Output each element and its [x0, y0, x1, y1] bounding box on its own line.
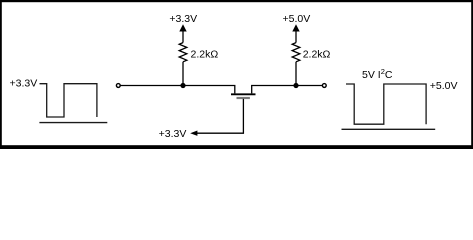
wire: gate to +3.3V reference	[197, 99, 244, 133]
MOSFET Q1 gate electrode bar	[237, 97, 250, 99]
svg-text:2.2kΩ: 2.2kΩ	[191, 48, 219, 60]
resistor R2 zigzag body	[292, 43, 300, 62]
svg-text:+3.3V: +3.3V	[159, 128, 187, 140]
svg-text:5V I2C: 5V I2C	[362, 67, 393, 81]
waveform: 5V logic signal	[346, 84, 426, 124]
wire: left terminal to MOSFET drain	[120, 86, 234, 94]
resistor R2 lead top	[295, 30, 297, 43]
svg-text:2.2kΩ: 2.2kΩ	[303, 48, 331, 60]
wire: MOSFET source to right terminal	[252, 86, 323, 94]
resistor R2 2.2k pull-up lead bottom	[295, 62, 297, 86]
supply arrow +3.3V (left pull-up)	[179, 24, 186, 31]
terminal: 5V-side open circle	[322, 84, 326, 88]
frame border	[0, 0, 473, 149]
arrow to +3.3V gate reference	[190, 131, 197, 136]
resistor R1 lead top	[182, 30, 184, 43]
svg-text:+3.3V: +3.3V	[10, 78, 38, 90]
waveform baseline (left)	[39, 122, 107, 124]
waveform: 3.3V logic signal	[40, 84, 97, 117]
svg-text:+3.3V: +3.3V	[169, 13, 197, 25]
MOSFET Q1 channel bar	[231, 93, 256, 95]
junction node B (5V bus)	[293, 83, 298, 88]
svg-text:+5.0V: +5.0V	[430, 80, 458, 92]
supply arrow +5.0V (right pull-up)	[292, 24, 299, 31]
resistor R1 zigzag body	[179, 43, 187, 62]
resistor R1 2.2k pull-up lead bottom	[182, 62, 184, 86]
terminal: 3.3V-side open circle	[116, 84, 120, 88]
junction node A (3.3V bus)	[180, 83, 185, 88]
svg-text:+5.0V: +5.0V	[283, 13, 311, 25]
waveform baseline (right)	[342, 128, 436, 130]
